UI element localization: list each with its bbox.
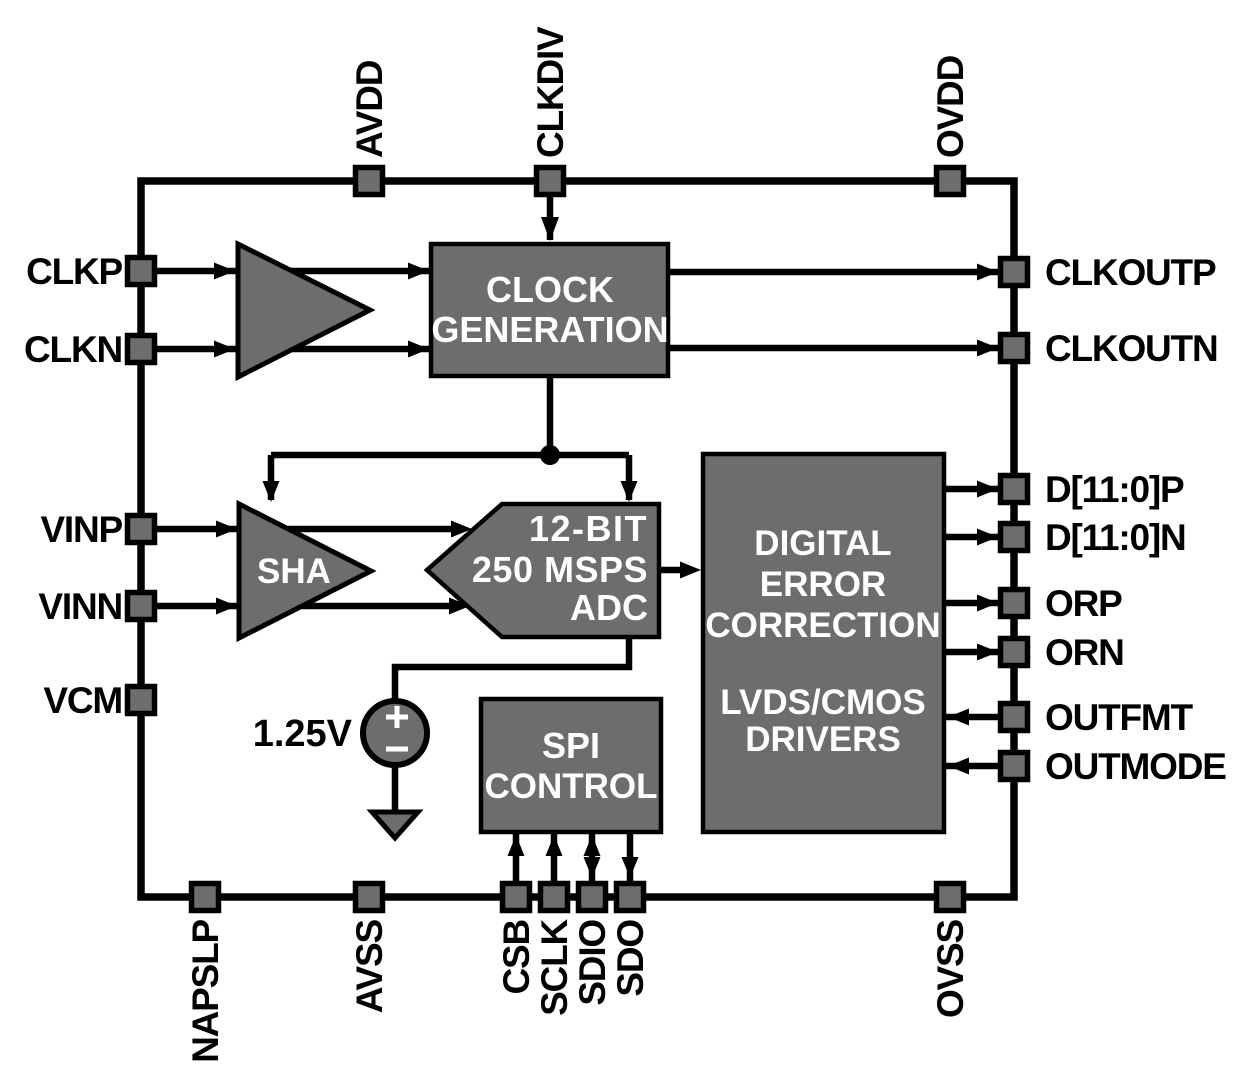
arrowhead SDO to pin	[622, 857, 639, 878]
arrowhead OUTFMT into DEC	[948, 709, 969, 726]
block SPI CONTROL	[481, 699, 661, 832]
wire ADC to 1.25V reference	[395, 637, 629, 701]
svg-text:VINP: VINP	[40, 509, 122, 550]
pin CSB	[503, 884, 530, 911]
pin VINN	[128, 593, 155, 620]
arrowhead VINP into SHA	[216, 521, 237, 538]
wire CLKP to clock buffer and clock generation	[156, 268, 431, 275]
svg-text:D[11:0]P: D[11:0]P	[1045, 469, 1184, 510]
pin ORN	[1001, 639, 1028, 666]
arrowhead OUTMODE into DEC	[948, 758, 969, 775]
arrowhead SDIO into SPI	[584, 835, 601, 856]
svg-text:1.25V: 1.25V	[253, 713, 353, 755]
pin VINP	[128, 516, 155, 543]
wire clock drop to ADC	[626, 455, 633, 500]
arrowhead SHA output into ADC lower	[449, 598, 470, 615]
svg-text:SHA: SHA	[257, 552, 331, 591]
pin CLKOUTP	[1001, 259, 1028, 286]
wire CLKN to clock buffer and clock generation	[156, 346, 431, 353]
svg-text:ERROR: ERROR	[760, 565, 886, 604]
pin AVSS	[356, 884, 383, 911]
wire ADC output to digital error correction	[659, 567, 683, 574]
arrowhead VINN into SHA	[216, 598, 237, 615]
svg-text:ADC: ADC	[570, 587, 648, 628]
wire OUTMODE to DEC	[944, 763, 1000, 770]
svg-text:AVSS: AVSS	[349, 919, 390, 1013]
svg-text:CLOCK: CLOCK	[486, 269, 614, 310]
arrowhead SCLK into SPI	[546, 835, 563, 856]
svg-text:CLKOUTP: CLKOUTP	[1045, 252, 1216, 293]
arrowhead CLKDIV into clock generation	[541, 217, 559, 241]
arrowhead into D[11:0]N pin	[977, 529, 998, 546]
svg-text:VINN: VINN	[38, 586, 122, 627]
arrowhead CLKN into clock generation	[408, 341, 429, 358]
op-amp SHA	[239, 504, 371, 638]
svg-text:ORP: ORP	[1045, 583, 1122, 624]
arrowhead into ORN pin	[977, 644, 998, 661]
svg-text:LVDS/CMOS: LVDS/CMOS	[720, 683, 925, 722]
wire DEC to D[11:0]N	[944, 534, 1000, 541]
pin AVDD	[356, 168, 383, 195]
svg-text:D[11:0]N: D[11:0]N	[1045, 517, 1186, 558]
pin OUTMODE	[1001, 753, 1028, 780]
arrowhead CSB into SPI	[508, 835, 525, 856]
wire clock generation to CLKOUTN	[668, 345, 1000, 352]
svg-text:DRIVERS: DRIVERS	[745, 720, 901, 759]
pin CLKN	[128, 336, 155, 363]
pin OVDD	[937, 168, 964, 195]
svg-text:CORRECTION: CORRECTION	[705, 606, 940, 645]
svg-text:CSB: CSB	[496, 920, 537, 995]
arrowhead SHA output into ADC	[451, 521, 472, 538]
svg-text:NAPSLP: NAPSLP	[185, 919, 226, 1062]
arrowhead CLKP into clock generation	[408, 263, 429, 280]
arrowhead SDIO to pin	[584, 857, 601, 878]
wire DEC to ORP	[944, 600, 1000, 607]
arrowhead into D[11:0]P pin	[977, 481, 998, 498]
svg-text:SCLK: SCLK	[534, 919, 575, 1016]
junction clock node	[540, 445, 560, 465]
svg-text:ORN: ORN	[1045, 632, 1124, 673]
wire SPI SDIO stub	[589, 832, 596, 882]
svg-text:OUTFMT: OUTFMT	[1045, 697, 1194, 738]
pin OUTFMT	[1001, 704, 1028, 731]
clock buffer amplifier	[238, 244, 370, 377]
arrowhead CLKN into clock buffer	[214, 341, 235, 358]
wire 1.25V reference to ground	[392, 765, 399, 818]
svg-text:VCM: VCM	[43, 680, 122, 721]
wire clock generation to CLKOUTP	[668, 269, 1000, 276]
svg-text:SPI: SPI	[542, 725, 600, 766]
pin SDIO	[579, 884, 606, 911]
arrowhead CLKP into clock buffer	[214, 263, 235, 280]
arrowhead clock drop into SHA	[263, 481, 280, 502]
wire VINP to SHA and ADC	[156, 526, 455, 533]
pin VCM	[128, 687, 155, 714]
arrowhead into CLKOUTN pin	[977, 340, 998, 357]
pin CLKDIV	[537, 168, 564, 195]
svg-text:SDIO: SDIO	[572, 920, 613, 1006]
wire clock drop to SHA	[268, 455, 275, 500]
svg-text:GENERATION: GENERATION	[431, 309, 668, 350]
block DIGITAL ERROR CORRECTION / LVDS-CMOS DRIVERS	[703, 454, 944, 832]
wire OUTFMT to DEC	[944, 714, 1000, 721]
svg-text:DIGITAL: DIGITAL	[754, 524, 891, 563]
svg-text:CONTROL: CONTROL	[484, 767, 657, 806]
svg-text:CLKOUTN: CLKOUTN	[1045, 328, 1217, 369]
wire clock generation bottom to clock node	[547, 376, 554, 455]
wire DEC to D[11:0]P	[944, 486, 1000, 493]
pin SCLK	[541, 884, 568, 911]
pin D[11:0]N	[1001, 524, 1028, 551]
wire CLKDIV stub into clock generation	[547, 196, 554, 240]
wire SPI SCLK stub	[551, 832, 558, 882]
wire SPI CSB stub	[513, 832, 520, 882]
block CLOCK GENERATION	[431, 244, 669, 376]
wire SPI SDO stub	[627, 832, 634, 882]
pin NAPSLP	[192, 884, 219, 911]
voltage source 1.25V	[363, 701, 427, 765]
arrowhead into ORP pin	[977, 595, 998, 612]
arrowhead into CLKOUTP pin	[977, 264, 998, 281]
arrowhead clock drop into ADC	[621, 481, 638, 502]
chip outline	[141, 181, 1014, 897]
svg-text:OVDD: OVDD	[930, 55, 971, 158]
pin CLKP	[128, 258, 155, 285]
arrowhead ADC output into DEC	[680, 562, 701, 579]
svg-text:AVDD: AVDD	[349, 60, 390, 158]
pin OVSS	[937, 884, 964, 911]
svg-text:12-BIT: 12-BIT	[529, 508, 648, 549]
wire DEC to ORN	[944, 649, 1000, 656]
svg-text:CLKN: CLKN	[24, 329, 122, 370]
ground	[372, 812, 418, 838]
svg-text:CLKP: CLKP	[26, 251, 122, 292]
svg-text:250 MSPS: 250 MSPS	[472, 549, 648, 590]
pin D[11:0]P	[1001, 476, 1028, 503]
block 12-BIT 250 MSPS ADC	[427, 504, 659, 637]
pin ORP	[1001, 590, 1028, 617]
svg-text:SDO: SDO	[610, 920, 651, 997]
wire clock distribution horizontal	[271, 452, 629, 459]
svg-text:CLKDIV: CLKDIV	[530, 26, 571, 158]
svg-text:OUTMODE: OUTMODE	[1045, 746, 1226, 787]
pin SDO	[617, 884, 644, 911]
wire VINN to SHA and ADC	[156, 603, 452, 610]
svg-text:OVSS: OVSS	[930, 919, 971, 1018]
pin CLKOUTN	[1001, 335, 1028, 362]
